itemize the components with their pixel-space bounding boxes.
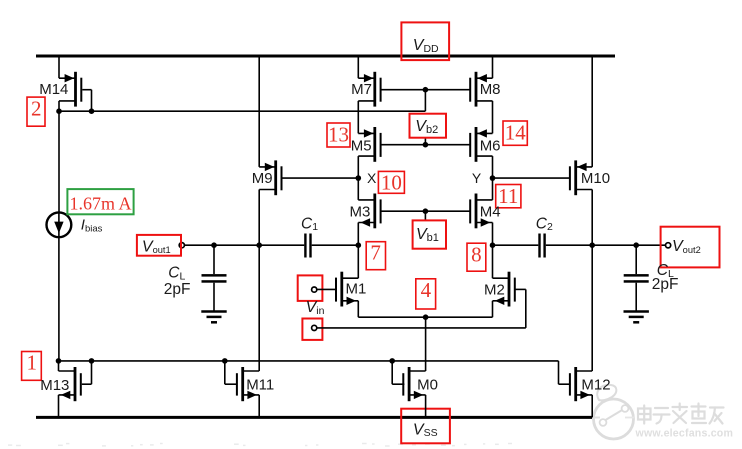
wire M14 source to node 2 [58,101,60,111]
wire VDD to M7 source [357,56,359,78]
svg-text:13: 13 [328,122,349,146]
label Vb2 [415,118,438,136]
terminal Vin+ circle [312,287,317,292]
ground right [624,312,649,323]
capacitor CL left [202,274,227,283]
svg-text:X: X [367,170,377,186]
wire M9 gate to node X [283,177,359,179]
watermark bottom strip [8,444,512,447]
label Vb1 [416,226,439,244]
junction M3-M4 gates Vb1 [423,208,429,214]
node 2 number [31,97,42,121]
watermark elecfans logo [592,385,733,440]
wire C1 to node 7 [312,244,359,246]
svg-text:2pF: 2pF [164,281,191,298]
svg-text:1: 1 [26,351,37,375]
svg-text:M9: M9 [252,170,273,187]
wire M0 gate tap [392,361,404,384]
wire Vout1 to M11 drain [258,245,260,371]
svg-text:M13: M13 [40,377,69,394]
wire CL left to ground [213,283,215,312]
wire M2 source down [492,301,494,317]
junction Vout1 at CL [211,242,217,248]
node X junction [356,175,362,181]
label M4 [480,204,501,221]
svg-text:M6: M6 [480,137,501,154]
node 13 red box [327,123,350,147]
svg-text:2: 2 [31,97,42,121]
label CL left [168,265,185,283]
label Vout2 [672,238,701,255]
label M0 [417,377,438,394]
wire node 1 to M13 drain [58,361,60,371]
wire node 8 to C2 [493,244,539,246]
wire M13 source to VSS [58,395,60,418]
svg-text:M1: M1 [346,281,367,298]
svg-text:M5: M5 [351,137,372,154]
node 4 red box [416,279,436,309]
transistor M10 [569,160,592,195]
node 7 red box [366,242,385,270]
wire node 2 to current source [58,111,60,212]
wire tail to M0 drain [425,317,427,371]
svg-text:M14: M14 [39,81,68,98]
svg-text:4: 4 [421,278,432,302]
svg-text:14: 14 [505,120,527,144]
power rail VSS [36,416,592,419]
svg-text:M2: M2 [484,281,505,298]
terminal Vout1 circle [179,243,184,248]
junction Vout1 at M9 drain [256,242,262,248]
wire M5 drain to node X to M3 drain [357,156,359,200]
label C2 [536,215,553,233]
label Y [472,170,482,186]
transistor M13 [59,367,82,401]
node 2 red box [27,97,45,126]
wire M7-M8 gate line [381,89,471,91]
junction Vout2 at CL [633,242,639,248]
wire M1 source down [357,301,359,317]
svg-text:M4: M4 [480,204,501,221]
node 10 number [381,171,402,195]
wire M3-M4 gate line [381,210,471,212]
wire M13 gate tap [82,361,92,384]
wire current source to node 1 [58,237,60,361]
svg-text:M11: M11 [246,376,274,393]
wire Vin+ to M1 gate [317,288,337,290]
label M6 [480,137,501,154]
junction M7-M8 gates to node 2 [423,87,429,93]
node 14 number [505,120,527,144]
annotation text 1.67m A [69,194,131,214]
label M2 [484,281,505,298]
svg-text:M0: M0 [417,377,438,394]
svg-text:M12: M12 [581,377,610,394]
transistor M1 [335,272,358,307]
label M11 [246,376,274,393]
wire VDD to M9 source [258,56,260,167]
power rail VDD [36,55,615,58]
svg-text:8: 8 [471,243,482,267]
transistor M4 [469,194,492,229]
node 4 number [421,278,432,302]
wire Vin- to M2 gate [317,289,526,328]
wire M7 drain to M5 source [357,101,359,133]
svg-text:M10: M10 [581,170,610,187]
wire M11 source to VSS [258,395,260,418]
label CL right [657,262,674,280]
transistor M2 [493,272,516,307]
junction node 1 at bias column [56,358,62,364]
node 7 number [370,241,381,265]
wire M8 drain to M6 source [492,101,494,133]
current source Ibias [47,212,72,237]
wire M11 gate tap [225,361,238,384]
svg-text:10: 10 [381,171,402,195]
transistor M12 [569,367,592,401]
wire M5-M6 gate line [381,144,471,146]
wire Vout1 to C1 [184,244,304,246]
node 13 number [328,122,349,146]
node 14 red box [503,121,527,145]
VSS red box [401,409,450,444]
svg-text:2pF: 2pF [652,276,679,293]
label M3 [350,204,371,221]
svg-text:www.elecfans.com: www.elecfans.com [635,428,734,440]
node 11 red box [496,185,521,208]
Vout2 red box [661,227,720,268]
svg-text:M8: M8 [480,81,501,98]
wire Vb2 stub [424,138,426,145]
terminal Vout2 circle [666,243,671,248]
wire M3 source to node 7 to M1 drain [357,223,359,279]
label M1 [346,281,367,298]
capacitor CL right [624,274,649,283]
label Vin [306,299,325,317]
wire M4 source to node 8 to M2 drain [492,223,494,279]
wire CL right to ground [635,283,637,312]
wire M6 drain to node Y to M4 drain [492,156,494,200]
Vb2 red box [410,114,447,138]
wire Vout2 CL tap [635,245,637,274]
label Vout1 [142,238,171,255]
node 1 red box [22,352,42,381]
transistor M5 [358,127,381,162]
node 7 junction [356,242,362,248]
transistor M7 [358,72,381,107]
label C1 [301,215,318,233]
node 8 number [471,243,482,267]
junction node 1 at M13 gate [89,358,95,364]
transistor M6 [469,127,492,162]
terminal Vin- circle [312,325,317,330]
ground left [201,312,226,323]
terminal Vin- red box [302,319,322,340]
junction Vout2 at M10 drain [589,242,595,248]
wire M10 drain to Vout2 [591,190,593,246]
wire VDD to M8 source [492,56,494,78]
wire tail line [358,316,492,318]
node 8 junction [490,242,496,248]
wire VDD to M10 source [591,56,593,167]
transistor M3 [358,194,381,229]
label M9 [252,170,273,187]
node 8 red box [467,243,486,271]
label VDD [413,37,439,55]
svg-text:Y: Y [472,170,482,186]
VDD red box [401,22,449,60]
Vout1 red box [137,235,181,256]
wire Vb1 stub [424,211,426,220]
wire M12 source to VSS [591,395,593,418]
node 11 number [498,184,518,208]
wire M0 source to VSS [425,395,427,418]
junction M5-M6 gates Vb2 [423,142,429,148]
label M12 [581,377,610,394]
label M10 [581,170,610,187]
Vb1 red box [413,220,446,248]
svg-text:M7: M7 [351,81,372,98]
junction node 1 at M11 gate [222,358,228,364]
junction tail node 4 [423,314,429,320]
terminal Vin+ red box [298,275,323,301]
wire VDD to M14 drain [58,56,60,78]
label 2pF right [652,276,679,293]
wire node 2 rail [59,90,425,112]
transistor M0 [402,367,425,401]
transistor M9 [259,160,282,195]
label X [367,170,377,186]
capacitor C1 [304,234,311,258]
wire C2 to Vout2 [546,244,666,246]
transistor M8 [469,72,492,107]
wire node 1 to M12 gate [559,361,571,384]
label M14 [39,81,68,98]
junction node 2 at M14 gate [89,108,95,114]
junction node 1 at M0 gate [389,358,395,364]
transistor M14 [59,72,82,107]
label M5 [351,137,372,154]
label M8 [480,81,501,98]
svg-text:7: 7 [370,241,381,265]
annotation green box 1.67mA [67,189,133,214]
wire M10 gate to node Y [493,177,570,179]
wire node 1 rail [59,360,559,362]
capacitor C2 [538,234,546,258]
label 2pF left [164,281,191,298]
node Y junction [490,175,496,181]
node 1 number [26,351,37,375]
wire M14 gate tap [82,90,91,112]
node 10 red box [378,171,404,193]
label Ibias [81,217,103,235]
label VSS [413,421,438,439]
svg-text:11: 11 [498,184,518,208]
junction node 2 at M14 source [56,108,62,114]
label M13 [40,377,69,394]
transistor M11 [236,367,259,401]
label M7 [351,81,372,98]
svg-text:M3: M3 [350,204,371,221]
svg-text:1.67m A: 1.67m A [69,194,131,214]
wire M9 drain to Vout1 [258,190,260,246]
wire Vout2 to M12 drain [591,245,593,371]
wire Vout1 CL tap [213,245,215,274]
